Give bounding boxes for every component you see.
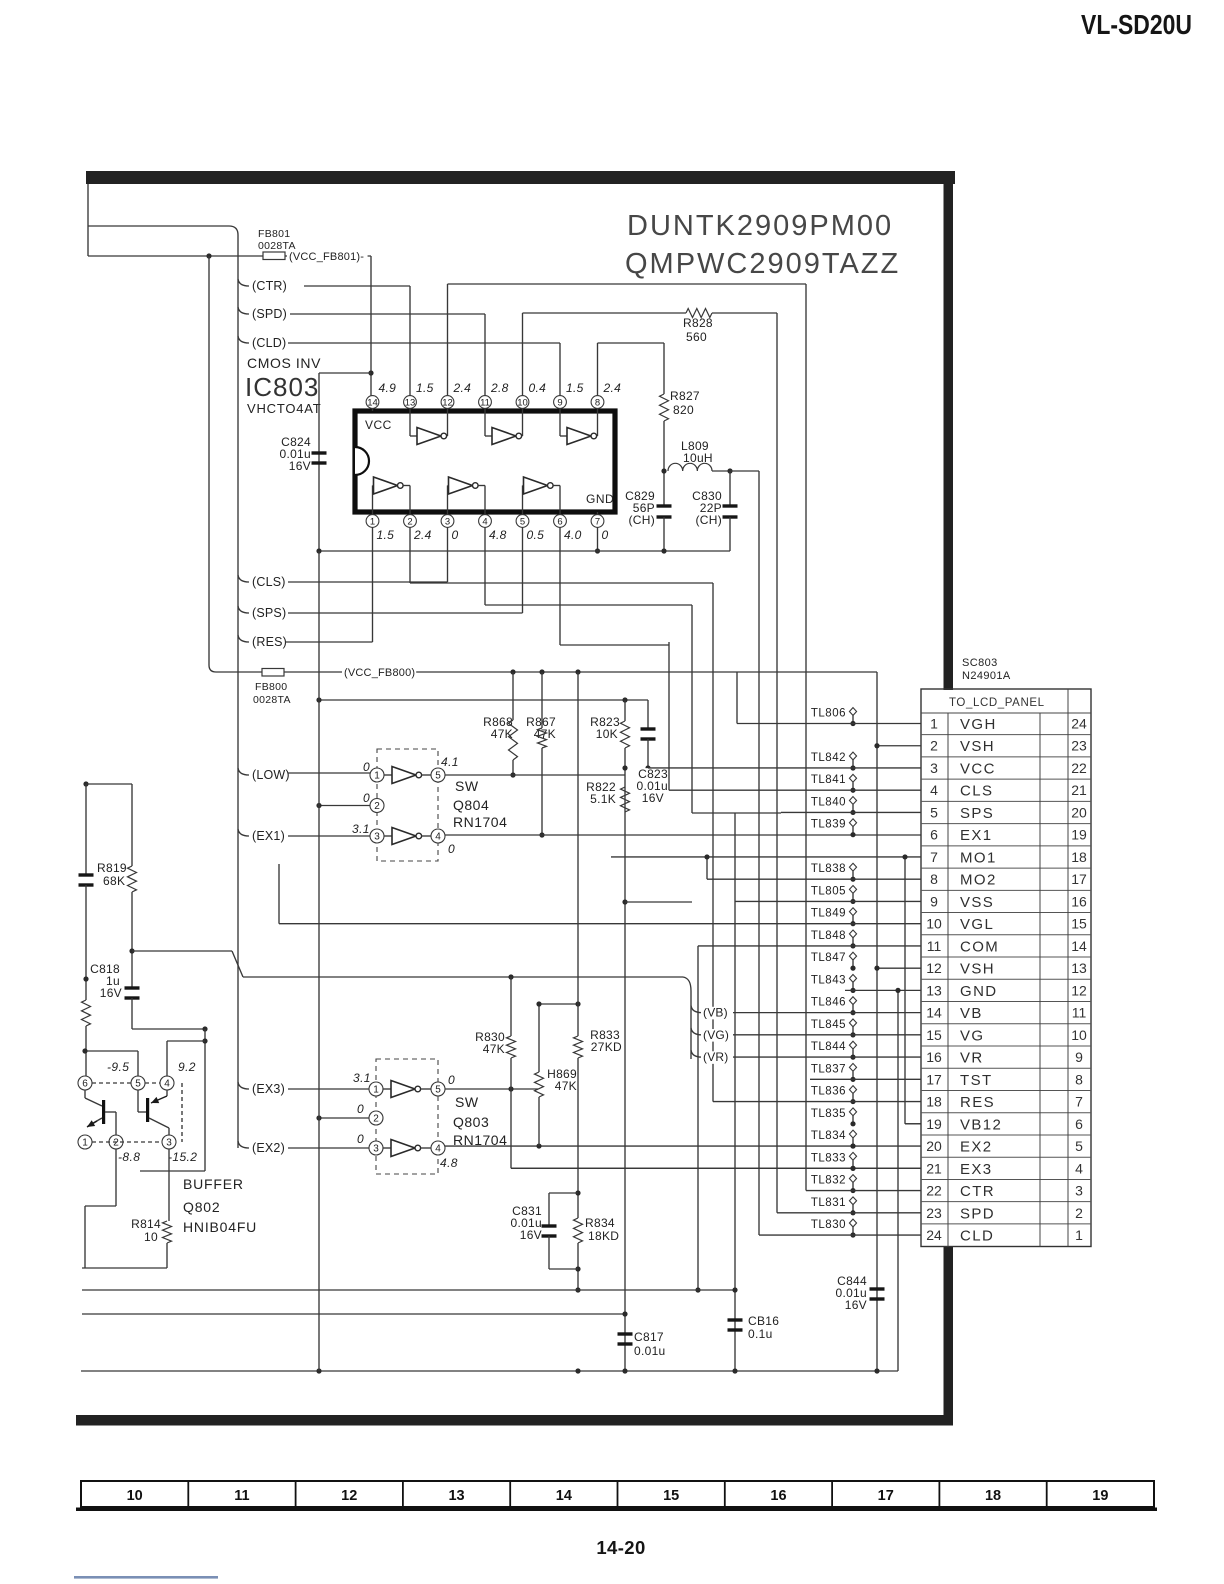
svg-text:15: 15 xyxy=(663,1488,679,1504)
svg-text:TL848: TL848 xyxy=(811,930,846,942)
svg-text:RN1704: RN1704 xyxy=(453,1132,507,1148)
svg-text:MO1: MO1 xyxy=(960,849,997,866)
svg-text:TST: TST xyxy=(960,1072,993,1089)
svg-text:VL-SD20U: VL-SD20U xyxy=(1081,9,1192,40)
svg-text:9: 9 xyxy=(557,397,562,408)
svg-text:14: 14 xyxy=(926,1005,942,1021)
svg-text:2: 2 xyxy=(930,738,938,754)
svg-text:R827: R827 xyxy=(670,389,700,403)
svg-text:1: 1 xyxy=(374,771,380,782)
svg-text:TL843: TL843 xyxy=(811,974,846,986)
svg-text:EX3: EX3 xyxy=(960,1161,993,1178)
svg-text:(SPD): (SPD) xyxy=(252,307,287,321)
svg-text:N24901A: N24901A xyxy=(962,670,1011,682)
svg-text:1: 1 xyxy=(930,716,938,732)
svg-text:(SPS): (SPS) xyxy=(252,606,286,620)
svg-text:TL833: TL833 xyxy=(811,1152,846,1164)
svg-text:(VCC_FB800): (VCC_FB800) xyxy=(344,667,415,679)
svg-text:560: 560 xyxy=(686,330,707,344)
svg-text:VG: VG xyxy=(960,1027,984,1044)
svg-text:VB: VB xyxy=(960,1005,983,1022)
svg-text:17: 17 xyxy=(878,1488,894,1504)
svg-text:5: 5 xyxy=(435,771,441,782)
svg-text:4.0: 4.0 xyxy=(564,528,582,542)
svg-text:0: 0 xyxy=(363,760,370,774)
svg-text:21: 21 xyxy=(926,1160,942,1176)
svg-text:20: 20 xyxy=(926,1138,942,1154)
svg-text:1: 1 xyxy=(370,516,375,527)
svg-text:5: 5 xyxy=(930,804,938,820)
svg-text:FB801: FB801 xyxy=(258,228,290,240)
svg-text:4: 4 xyxy=(930,782,938,798)
svg-text:(CTR): (CTR) xyxy=(252,279,287,293)
svg-text:VHCTO4AT: VHCTO4AT xyxy=(247,401,322,416)
svg-text:10: 10 xyxy=(517,397,528,408)
svg-text:0: 0 xyxy=(452,528,459,542)
svg-text:MO2: MO2 xyxy=(960,872,997,889)
svg-text:6: 6 xyxy=(1075,1116,1083,1132)
svg-text:QMPWC2909TAZZ: QMPWC2909TAZZ xyxy=(625,248,900,280)
svg-text:CB16: CB16 xyxy=(748,1314,779,1328)
svg-text:IC803: IC803 xyxy=(245,372,319,402)
svg-text:TL837: TL837 xyxy=(811,1063,846,1075)
svg-text:TL849: TL849 xyxy=(811,908,846,920)
svg-text:0028TA: 0028TA xyxy=(253,694,291,706)
svg-text:C817: C817 xyxy=(634,1330,664,1344)
svg-text:18: 18 xyxy=(985,1488,1001,1504)
svg-text:3: 3 xyxy=(374,832,380,843)
svg-text:0.01u: 0.01u xyxy=(634,1344,666,1358)
svg-text:Q802: Q802 xyxy=(183,1199,220,1215)
svg-text:10: 10 xyxy=(926,916,942,932)
svg-text:(VB): (VB) xyxy=(703,1006,728,1020)
svg-text:4: 4 xyxy=(1075,1160,1083,1176)
svg-text:R819: R819 xyxy=(97,861,127,875)
svg-text:8: 8 xyxy=(1075,1071,1083,1087)
svg-text:SPD: SPD xyxy=(960,1205,995,1222)
svg-text:3: 3 xyxy=(1075,1183,1083,1199)
svg-text:7: 7 xyxy=(1075,1094,1083,1110)
svg-text:10: 10 xyxy=(127,1488,143,1504)
svg-text:TL831: TL831 xyxy=(811,1197,846,1209)
svg-text:4: 4 xyxy=(435,832,441,843)
svg-text:14-20: 14-20 xyxy=(596,1537,645,1558)
svg-text:(CH): (CH) xyxy=(628,513,655,527)
svg-text:23: 23 xyxy=(926,1205,942,1221)
svg-text:9: 9 xyxy=(930,893,938,909)
svg-text:CLD: CLD xyxy=(960,1228,994,1245)
svg-text:COM: COM xyxy=(960,938,999,955)
svg-text:RES: RES xyxy=(960,1094,995,1111)
svg-text:0: 0 xyxy=(602,528,609,542)
svg-text:4.8: 4.8 xyxy=(489,528,507,542)
svg-text:7: 7 xyxy=(930,849,938,865)
svg-text:2.4: 2.4 xyxy=(413,528,432,542)
svg-text:2: 2 xyxy=(374,801,380,812)
svg-text:12: 12 xyxy=(341,1488,357,1504)
svg-text:0.4: 0.4 xyxy=(529,381,547,395)
svg-text:(RES): (RES) xyxy=(252,635,287,649)
svg-text:TL832: TL832 xyxy=(811,1175,846,1187)
svg-text:4: 4 xyxy=(164,1079,170,1090)
svg-text:24: 24 xyxy=(1071,716,1087,732)
svg-text:18: 18 xyxy=(926,1094,942,1110)
svg-text:R828: R828 xyxy=(683,316,713,330)
svg-text:13: 13 xyxy=(926,982,942,998)
svg-text:16V: 16V xyxy=(289,459,311,473)
svg-text:14: 14 xyxy=(1071,938,1087,954)
svg-text:20: 20 xyxy=(1071,804,1087,820)
svg-text:10: 10 xyxy=(144,1230,158,1244)
svg-text:16: 16 xyxy=(770,1488,786,1504)
svg-text:15: 15 xyxy=(1071,916,1087,932)
svg-text:TL834: TL834 xyxy=(811,1130,846,1142)
svg-text:-15.2: -15.2 xyxy=(168,1150,197,1164)
svg-text:8: 8 xyxy=(595,397,600,408)
svg-text:13: 13 xyxy=(448,1488,464,1504)
svg-text:18KD: 18KD xyxy=(588,1229,619,1243)
svg-text:GND: GND xyxy=(960,983,998,1000)
svg-text:47K: 47K xyxy=(491,727,513,741)
svg-text:VSH: VSH xyxy=(960,738,995,755)
svg-text:VGL: VGL xyxy=(960,916,994,933)
svg-text:2: 2 xyxy=(373,1114,379,1125)
svg-text:TL805: TL805 xyxy=(811,885,846,897)
svg-text:11: 11 xyxy=(234,1488,249,1504)
svg-text:VCC: VCC xyxy=(365,418,392,432)
svg-text:2.8: 2.8 xyxy=(490,381,509,395)
svg-text:11: 11 xyxy=(1072,1005,1087,1021)
svg-text:10K: 10K xyxy=(596,727,618,741)
svg-text:CMOS INV: CMOS INV xyxy=(247,355,321,371)
svg-text:14: 14 xyxy=(556,1488,572,1504)
svg-text:CTR: CTR xyxy=(960,1183,995,1200)
svg-text:TL830: TL830 xyxy=(811,1219,846,1231)
svg-text:SC803: SC803 xyxy=(962,657,998,669)
svg-text:VGH: VGH xyxy=(960,716,997,733)
svg-text:VB12: VB12 xyxy=(960,1116,1002,1133)
svg-text:19: 19 xyxy=(926,1116,942,1132)
svg-text:RN1704: RN1704 xyxy=(453,814,507,830)
svg-text:17: 17 xyxy=(926,1071,942,1087)
svg-text:TL839: TL839 xyxy=(811,819,846,831)
svg-text:23: 23 xyxy=(1071,738,1087,754)
svg-text:VR: VR xyxy=(960,1050,984,1067)
svg-text:12: 12 xyxy=(1071,982,1087,998)
svg-text:5: 5 xyxy=(1075,1138,1083,1154)
svg-text:17: 17 xyxy=(1071,871,1087,887)
svg-text:VCC: VCC xyxy=(960,760,996,777)
svg-text:CLS: CLS xyxy=(960,783,993,800)
svg-text:4.9: 4.9 xyxy=(379,381,397,395)
svg-text:(EX3): (EX3) xyxy=(252,1082,285,1096)
svg-text:0.5: 0.5 xyxy=(527,528,545,542)
svg-text:1.5: 1.5 xyxy=(416,381,434,395)
svg-text:(VG): (VG) xyxy=(703,1028,729,1042)
svg-text:47K: 47K xyxy=(555,1079,577,1093)
svg-text:0: 0 xyxy=(357,1132,364,1146)
svg-text:2: 2 xyxy=(113,1138,119,1149)
svg-text:16V: 16V xyxy=(642,791,664,805)
svg-text:HNIB04FU: HNIB04FU xyxy=(183,1219,257,1235)
svg-text:TL845: TL845 xyxy=(811,1019,846,1031)
svg-text:22: 22 xyxy=(1071,760,1087,776)
svg-text:1.5: 1.5 xyxy=(566,381,584,395)
svg-text:16V: 16V xyxy=(845,1298,867,1312)
svg-text:0: 0 xyxy=(448,1073,455,1087)
svg-text:13: 13 xyxy=(1071,960,1087,976)
svg-text:TL842: TL842 xyxy=(811,752,846,764)
svg-text:3.1: 3.1 xyxy=(352,822,370,836)
svg-text:Q803: Q803 xyxy=(453,1114,489,1130)
svg-text:TL847: TL847 xyxy=(811,952,846,964)
svg-text:2: 2 xyxy=(407,516,412,527)
svg-text:Q804: Q804 xyxy=(453,797,489,813)
svg-text:(CLS): (CLS) xyxy=(252,575,286,589)
svg-text:-8.8: -8.8 xyxy=(118,1150,140,1164)
svg-text:TL836: TL836 xyxy=(811,1086,846,1098)
svg-text:SW: SW xyxy=(455,1094,479,1110)
svg-text:0: 0 xyxy=(363,791,370,805)
svg-text:(CLD): (CLD) xyxy=(252,336,286,350)
svg-text:2: 2 xyxy=(1075,1205,1083,1221)
svg-text:DUNTK2909PM00: DUNTK2909PM00 xyxy=(627,210,893,242)
svg-text:(VCC_FB801)-: (VCC_FB801)- xyxy=(289,251,364,263)
svg-text:TL840: TL840 xyxy=(811,796,846,808)
svg-text:4.1: 4.1 xyxy=(441,755,459,769)
svg-text:SW: SW xyxy=(455,778,479,794)
svg-text:1: 1 xyxy=(82,1138,88,1149)
svg-text:16: 16 xyxy=(1071,893,1087,909)
svg-text:14: 14 xyxy=(367,397,378,408)
svg-text:2.4: 2.4 xyxy=(453,381,472,395)
svg-text:(LOW): (LOW) xyxy=(252,768,290,782)
svg-text:47K: 47K xyxy=(483,1042,505,1056)
svg-text:15: 15 xyxy=(926,1027,942,1043)
svg-text:3: 3 xyxy=(166,1138,172,1149)
svg-text:TL838: TL838 xyxy=(811,863,846,875)
svg-text:0.1u: 0.1u xyxy=(748,1327,773,1341)
svg-text:19: 19 xyxy=(1071,827,1087,843)
svg-text:16V: 16V xyxy=(520,1228,542,1242)
svg-text:6: 6 xyxy=(930,827,938,843)
svg-text:27KD: 27KD xyxy=(591,1040,622,1054)
svg-text:11: 11 xyxy=(480,397,490,408)
svg-text:3: 3 xyxy=(930,760,938,776)
svg-text:1.5: 1.5 xyxy=(377,528,395,542)
svg-text:VSH: VSH xyxy=(960,961,995,978)
svg-text:3: 3 xyxy=(445,516,450,527)
svg-text:5.1K: 5.1K xyxy=(590,792,616,806)
svg-text:68K: 68K xyxy=(103,874,125,888)
svg-text:VSS: VSS xyxy=(960,894,994,911)
svg-text:(CH): (CH) xyxy=(695,513,722,527)
svg-text:EX1: EX1 xyxy=(960,827,993,844)
svg-text:R834: R834 xyxy=(585,1216,615,1230)
svg-text:820: 820 xyxy=(673,403,694,417)
svg-text:1: 1 xyxy=(373,1085,379,1096)
svg-text:BUFFER: BUFFER xyxy=(183,1176,244,1192)
svg-text:0: 0 xyxy=(357,1102,364,1116)
svg-text:19: 19 xyxy=(1092,1488,1108,1504)
svg-text:6: 6 xyxy=(557,516,562,527)
svg-text:3.1: 3.1 xyxy=(353,1071,371,1085)
svg-text:9: 9 xyxy=(1075,1049,1083,1065)
svg-text:3: 3 xyxy=(373,1144,379,1155)
svg-text:12: 12 xyxy=(442,397,453,408)
svg-text:10: 10 xyxy=(1071,1027,1087,1043)
svg-text:18: 18 xyxy=(1071,849,1087,865)
svg-text:(EX2): (EX2) xyxy=(252,1141,285,1155)
svg-text:R814: R814 xyxy=(131,1217,161,1231)
svg-text:-9.5: -9.5 xyxy=(107,1060,129,1074)
svg-text:4: 4 xyxy=(435,1144,441,1155)
svg-text:24: 24 xyxy=(926,1227,942,1243)
svg-text:4.8: 4.8 xyxy=(440,1156,458,1170)
svg-text:TL841: TL841 xyxy=(811,774,846,786)
svg-text:22: 22 xyxy=(926,1183,942,1199)
svg-text:12: 12 xyxy=(926,960,942,976)
svg-text:2.4: 2.4 xyxy=(603,381,622,395)
svg-text:TO_LCD_PANEL: TO_LCD_PANEL xyxy=(949,697,1045,709)
svg-text:8: 8 xyxy=(930,871,938,887)
svg-text:7: 7 xyxy=(595,516,600,527)
svg-text:5: 5 xyxy=(135,1079,141,1090)
svg-text:(VR): (VR) xyxy=(703,1050,728,1064)
svg-text:10uH: 10uH xyxy=(683,451,713,465)
svg-text:SPS: SPS xyxy=(960,805,994,822)
svg-text:11: 11 xyxy=(927,938,942,954)
svg-text:FB800: FB800 xyxy=(255,681,287,693)
svg-text:5: 5 xyxy=(520,516,525,527)
svg-text:(EX1): (EX1) xyxy=(252,829,285,843)
svg-text:5: 5 xyxy=(435,1085,441,1096)
svg-text:4: 4 xyxy=(482,516,487,527)
svg-text:TL844: TL844 xyxy=(811,1041,846,1053)
svg-text:6: 6 xyxy=(82,1079,88,1090)
svg-text:16V: 16V xyxy=(100,986,122,1000)
svg-text:9.2: 9.2 xyxy=(178,1060,196,1074)
svg-text:TL846: TL846 xyxy=(811,997,846,1009)
svg-text:TL835: TL835 xyxy=(811,1108,846,1120)
svg-text:1: 1 xyxy=(1075,1227,1083,1243)
svg-text:13: 13 xyxy=(405,397,416,408)
svg-text:0: 0 xyxy=(448,842,455,856)
svg-text:21: 21 xyxy=(1071,782,1087,798)
svg-text:EX2: EX2 xyxy=(960,1139,993,1156)
svg-text:16: 16 xyxy=(926,1049,942,1065)
svg-text:GND: GND xyxy=(586,492,614,506)
svg-text:TL806: TL806 xyxy=(811,708,846,720)
